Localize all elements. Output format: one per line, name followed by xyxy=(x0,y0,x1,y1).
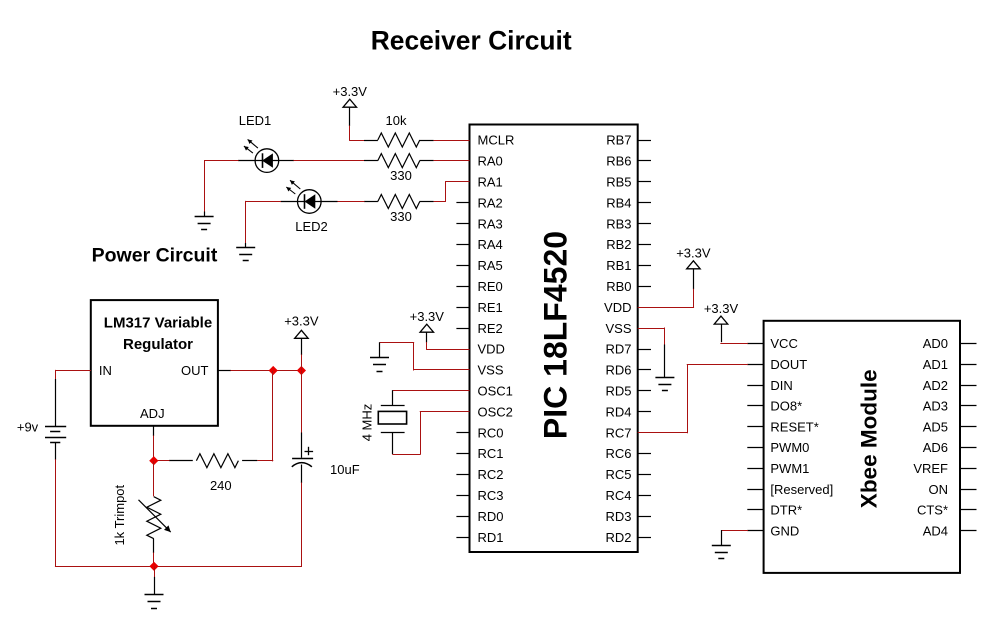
wire: stub of U2 left pin DO8* xyxy=(747,405,763,407)
svg-text:LED1: LED1 xyxy=(239,113,272,128)
wire: stub of U2 left pin PWM1 xyxy=(747,468,763,470)
wire: LED2 to R3 xyxy=(337,201,365,203)
svg-text:RE2: RE2 xyxy=(478,321,503,336)
svg-text:RA5: RA5 xyxy=(478,258,503,273)
LED LED2 xyxy=(298,190,322,214)
wire: stub of U2 left pin DOUT xyxy=(747,364,763,366)
wire: stub of U1 right pin RD2 xyxy=(638,537,651,539)
wire: VSS left to ground xyxy=(414,369,470,371)
wire: stub of U1 left pin RD0 xyxy=(456,516,469,518)
svg-text:AD1: AD1 xyxy=(923,357,948,372)
wire: stub of U2 right pin VREF xyxy=(960,468,977,470)
potentiometer R5 1k Trimpot xyxy=(147,497,161,539)
wire: stub of U1 left pin RE2 xyxy=(456,328,469,330)
wire: stub of U1 right pin RB6 xyxy=(638,160,651,162)
svg-text:+3.3V: +3.3V xyxy=(284,314,319,329)
wire: stub of U1 left pin RC3 xyxy=(456,495,469,497)
trimpot wiper arrow xyxy=(139,500,171,532)
svg-text:OSC2: OSC2 xyxy=(478,404,513,419)
wire: OSC2 pin xyxy=(420,411,470,413)
wire: stub of U1 right pin RB0 xyxy=(638,286,651,288)
wire: ADJ pin down xyxy=(153,426,155,436)
wire: +3.3V to VDD pin xyxy=(426,332,428,342)
svg-text:RA1: RA1 xyxy=(478,175,503,190)
wire: stub of U1 right pin RD7 xyxy=(638,349,651,351)
capacitor C1 10uF xyxy=(301,433,303,458)
wire: OUT to +3.3V node xyxy=(218,370,231,372)
svg-text:RC6: RC6 xyxy=(605,446,631,461)
wire: stub of U2 left pin DIN xyxy=(747,385,763,387)
svg-text:VDD: VDD xyxy=(604,300,631,315)
wire: stub of U1 right pin RD6 xyxy=(638,369,651,371)
wire: stub of U1 right pin RC4 xyxy=(638,495,651,497)
wire: stub of U1 left pin RC2 xyxy=(456,474,469,476)
svg-text:PWM0: PWM0 xyxy=(770,440,809,455)
svg-text:Receiver Circuit: Receiver Circuit xyxy=(371,26,572,56)
wire: stub of U2 right pin AD4 xyxy=(960,530,977,532)
wire: stub of U2 right pin AD6 xyxy=(960,447,977,449)
wire: Xbee GND to ground xyxy=(721,530,748,532)
svg-text:RESET*: RESET* xyxy=(770,419,818,434)
svg-text:+3.3V: +3.3V xyxy=(333,84,368,99)
svg-text:RB0: RB0 xyxy=(606,279,631,294)
svg-text:OSC1: OSC1 xyxy=(478,384,513,399)
ground (Xbee GND) xyxy=(721,530,723,545)
svg-text:LM317 Variable: LM317 Variable xyxy=(104,315,212,332)
svg-text:RE1: RE1 xyxy=(478,300,503,315)
ground (right VSS) xyxy=(664,345,666,378)
crystal Y1 4 MHz xyxy=(392,390,394,405)
svg-text:+3.3V: +3.3V xyxy=(704,301,739,316)
svg-text:RD5: RD5 xyxy=(605,384,631,399)
svg-text:Power Circuit: Power Circuit xyxy=(92,244,218,266)
svg-text:RA2: RA2 xyxy=(478,195,503,210)
svg-text:RC5: RC5 xyxy=(605,467,631,482)
wire: stub of U1 left pin RD1 xyxy=(456,537,469,539)
svg-text:VSS: VSS xyxy=(478,363,504,378)
svg-text:330: 330 xyxy=(390,168,412,183)
wire: stub of U2 right pin ON xyxy=(960,489,977,491)
svg-text:VSS: VSS xyxy=(605,321,631,336)
svg-text:RD6: RD6 xyxy=(605,363,631,378)
wire: stub of U1 left pin RA2 xyxy=(456,202,469,204)
svg-text:+3.3V: +3.3V xyxy=(676,246,711,261)
wire: stub of U2 left pin GND xyxy=(747,530,763,532)
wire: right VDD to +3.3V xyxy=(693,269,695,290)
wire: stub of U2 left pin VCC xyxy=(747,343,763,345)
wire: stub of U1 right pin RD5 xyxy=(638,390,651,392)
wire: stub of U1 left pin RA3 xyxy=(456,223,469,225)
svg-text:IN: IN xyxy=(99,363,112,378)
svg-text:RD0: RD0 xyxy=(478,509,504,524)
svg-text:DIN: DIN xyxy=(770,378,792,393)
svg-text:PWM1: PWM1 xyxy=(770,461,809,476)
svg-text:AD0: AD0 xyxy=(923,336,948,351)
wire: stub of U1 right pin RB3 xyxy=(638,223,651,225)
wire: stub of U1 right pin RB2 xyxy=(638,244,651,246)
wire: stub of U1 right pin RB4 xyxy=(638,202,651,204)
svg-text:Regulator: Regulator xyxy=(123,336,193,353)
wire: R1 to MCLR pin xyxy=(434,140,470,142)
svg-text:DTR*: DTR* xyxy=(770,503,802,518)
svg-text:GND: GND xyxy=(770,523,799,538)
wire: stub of U1 right pin RC6 xyxy=(638,453,651,455)
svg-text:RC0: RC0 xyxy=(478,425,504,440)
wire: stub of U2 right pin AD5 xyxy=(960,426,977,428)
svg-text:RB5: RB5 xyxy=(606,175,631,190)
svg-text:+3.3V: +3.3V xyxy=(410,309,445,324)
wire: junction to trimpot xyxy=(153,461,155,496)
wire: +3.3V to VCC xyxy=(721,324,723,342)
svg-text:330: 330 xyxy=(390,209,412,224)
wire: LED2 to ground corner xyxy=(246,201,281,203)
wire: stub of U2 right pin AD3 xyxy=(960,405,977,407)
svg-text:RE0: RE0 xyxy=(478,279,503,294)
op-amp U1: PIC 18LF4520 microcontroller box xyxy=(470,125,638,553)
svg-text:VDD: VDD xyxy=(478,342,505,357)
wire: stub of U1 left pin RE0 xyxy=(456,286,469,288)
svg-text:RB1: RB1 xyxy=(606,258,631,273)
node: OUT junction 1 xyxy=(269,366,278,375)
svg-text:AD2: AD2 xyxy=(923,378,948,393)
svg-text:RB4: RB4 xyxy=(606,195,631,210)
wire: LED1 to ground corner xyxy=(204,160,238,162)
wire: stub of U1 right pin RD4 xyxy=(638,411,651,413)
wire: junction to R4 xyxy=(272,371,274,461)
wire: stub of U2 right pin AD0 xyxy=(960,343,977,345)
LED LED1 xyxy=(255,149,279,173)
resistor R1 10k xyxy=(364,140,378,142)
svg-text:RB2: RB2 xyxy=(606,237,631,252)
wire: +3.3V node down to C1 xyxy=(301,371,303,433)
resistor R4 240 xyxy=(242,460,257,462)
svg-text:RB7: RB7 xyxy=(606,133,631,148)
svg-text:PIC 18LF4520: PIC 18LF4520 xyxy=(538,231,574,439)
wire: trimpot bottom xyxy=(153,539,155,553)
node: ADJ junction xyxy=(149,456,158,465)
svg-text:AD6: AD6 xyxy=(923,440,948,455)
svg-text:RC3: RC3 xyxy=(478,488,504,503)
svg-text:RD7: RD7 xyxy=(605,342,631,357)
wire: right VSS to ground xyxy=(638,328,665,330)
wire: LED2 right lead xyxy=(321,201,337,203)
svg-text:MCLR: MCLR xyxy=(478,133,515,148)
resistor R3 330 xyxy=(364,201,378,203)
op-amp U2: Xbee Module box xyxy=(764,321,960,573)
wire: battery minus down xyxy=(55,442,57,460)
wire: C1 bottom to rail xyxy=(301,465,303,484)
wire: +3.3V down to MCLR row xyxy=(349,107,351,126)
svg-text:AD3: AD3 xyxy=(923,399,948,414)
ground (power supply) xyxy=(154,566,156,577)
svg-text:RC2: RC2 xyxy=(478,467,504,482)
svg-text:VCC: VCC xyxy=(770,336,797,351)
svg-text:[Reserved]: [Reserved] xyxy=(770,482,833,497)
wire: LED1 to R2 xyxy=(294,160,365,162)
wire: stub of U2 right pin AD1 xyxy=(960,364,977,366)
svg-text:RC7: RC7 xyxy=(605,425,631,440)
svg-text:10k: 10k xyxy=(386,113,407,128)
wire: stub of U2 right pin AD2 xyxy=(960,385,977,387)
svg-text:RA3: RA3 xyxy=(478,216,503,231)
svg-text:DOUT: DOUT xyxy=(770,357,807,372)
node: bottom rail junction xyxy=(149,562,158,571)
svg-text:RC1: RC1 xyxy=(478,446,504,461)
wire: ADJ junction to R4 xyxy=(154,460,170,462)
wire: stub of U1 left pin RC0 xyxy=(456,432,469,434)
svg-text:CTS*: CTS* xyxy=(917,503,948,518)
ground (left VSS) xyxy=(379,342,381,357)
svg-text:RA0: RA0 xyxy=(478,154,503,169)
wire: stub of U1 left pin RA5 xyxy=(456,265,469,267)
resistor R2 330 xyxy=(364,160,378,162)
wire: stub of U1 right pin RD3 xyxy=(638,516,651,518)
svg-text:240: 240 xyxy=(210,478,232,493)
svg-text:10uF: 10uF xyxy=(330,462,360,477)
wire: RC7 to Xbee DOUT xyxy=(638,432,688,434)
svg-text:RD3: RD3 xyxy=(605,509,631,524)
wire: LED1 right lead xyxy=(279,160,294,162)
svg-text:ON: ON xyxy=(929,482,949,497)
wire: LED1 left lead xyxy=(238,160,255,162)
svg-text:RD2: RD2 xyxy=(605,530,631,545)
wire: stub of U2 left pin DTR* xyxy=(747,509,763,511)
ground (LED1 cathode) xyxy=(204,212,206,217)
wire: LED2 left lead xyxy=(281,201,298,203)
svg-text:4 MHz: 4 MHz xyxy=(360,404,375,442)
wire: stub of U1 left pin RE1 xyxy=(456,307,469,309)
wire: bottom rail xyxy=(55,566,302,568)
wire: stub of U2 right pin CTS* xyxy=(960,509,977,511)
svg-text:AD4: AD4 xyxy=(923,523,948,538)
ground (LED2 cathode) xyxy=(245,243,247,247)
wire: stub of U1 right pin RC5 xyxy=(638,474,651,476)
wire: stub of U1 left pin RA4 xyxy=(456,244,469,246)
wire: crystal bottom to OSC2 xyxy=(392,454,420,456)
wire: RA1 pin jog down xyxy=(445,181,469,183)
svg-text:ADJ: ADJ xyxy=(140,406,165,421)
wire: stub of U1 left pin RC1 xyxy=(456,453,469,455)
battery B1 +9v xyxy=(45,426,66,428)
wire: stub of U1 right pin RB1 xyxy=(638,265,651,267)
wire: corner to R1 left lead xyxy=(349,140,364,142)
svg-text:RD4: RD4 xyxy=(605,404,631,419)
svg-text:RD1: RD1 xyxy=(478,530,504,545)
svg-text:OUT: OUT xyxy=(181,363,209,378)
plus sign (C1 polarity) xyxy=(305,451,314,453)
wire: IN to battery xyxy=(56,370,91,372)
wire: stub of U2 left pin PWM0 xyxy=(747,447,763,449)
svg-text:RB3: RB3 xyxy=(606,216,631,231)
svg-text:Xbee Module: Xbee Module xyxy=(857,369,882,508)
wire: stub of U2 left pin [Reserved] xyxy=(747,489,763,491)
wire: stub of U1 right pin RB5 xyxy=(638,181,651,183)
wire: stub of U1 right pin RB7 xyxy=(638,140,651,142)
svg-text:VREF: VREF xyxy=(913,461,948,476)
svg-text:RB6: RB6 xyxy=(606,154,631,169)
wire: OSC1 to crystal xyxy=(393,390,470,392)
wire: stub of U2 left pin RESET* xyxy=(747,426,763,428)
svg-text:RC4: RC4 xyxy=(605,488,631,503)
svg-text:LED2: LED2 xyxy=(295,219,328,234)
svg-text:RA4: RA4 xyxy=(478,237,503,252)
node: OUT junction 2 xyxy=(297,366,306,375)
regulator U3: LM317 box xyxy=(91,300,218,426)
svg-text:DO8*: DO8* xyxy=(770,399,802,414)
svg-text:+9v: +9v xyxy=(17,420,39,435)
svg-text:1k Trimpot: 1k Trimpot xyxy=(112,484,127,545)
svg-text:AD5: AD5 xyxy=(923,419,948,434)
wire: R2 to RA0 pin xyxy=(434,160,470,162)
wire: +3.3V lead xyxy=(301,338,303,355)
